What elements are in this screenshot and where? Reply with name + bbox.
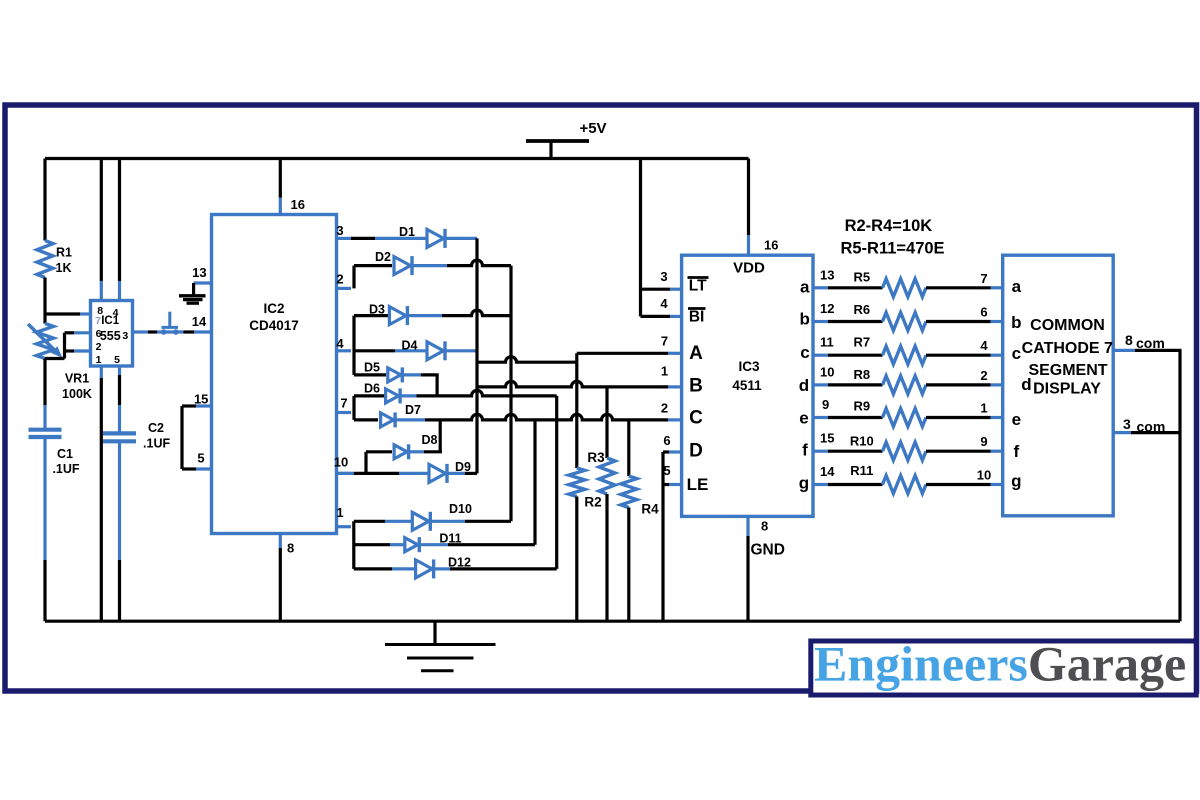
svg-text:2: 2	[661, 401, 668, 416]
ground at IC2 pin13	[192, 283, 195, 295]
resistor R11 row	[813, 483, 828, 486]
svg-text:B: B	[689, 376, 703, 397]
svg-text:D9: D9	[455, 460, 471, 474]
svg-text:C2: C2	[148, 421, 164, 435]
svg-text:R7: R7	[853, 335, 870, 350]
wire rail drop to LT/BI bracket	[639, 159, 642, 317]
potentiometer VR1	[37, 324, 54, 359]
wire left main column top	[43, 159, 46, 241]
wire IC1 pin3 output row	[133, 330, 149, 333]
svg-text:4: 4	[980, 338, 988, 353]
svg-text:R4: R4	[641, 502, 659, 517]
svg-text:LT: LT	[689, 278, 707, 295]
svg-text:1: 1	[661, 364, 668, 379]
diode D6 row	[354, 394, 384, 397]
wire elbow pin7 rows D6-D7	[352, 396, 355, 420]
wire D8 rise to C line	[439, 420, 442, 452]
wire IC2 pin2 stub	[337, 287, 352, 290]
svg-text:com: com	[1136, 335, 1165, 351]
resistor R10 row	[813, 450, 828, 453]
svg-text:2: 2	[96, 341, 102, 353]
wire common cathode down to rail	[1178, 350, 1181, 621]
svg-text:D: D	[689, 441, 703, 462]
diode D3 row	[354, 314, 388, 317]
svg-text:SEGMENT: SEGMENT	[1028, 362, 1107, 379]
resistor R7 row	[813, 354, 828, 357]
wire IC1 pin5 down	[118, 366, 121, 375]
svg-text:3: 3	[122, 330, 128, 342]
capacitor C1 .1UF	[29, 428, 62, 432]
svg-text:BI: BI	[689, 309, 705, 326]
svg-text:11: 11	[820, 335, 834, 350]
svg-text:D11: D11	[439, 532, 461, 546]
diode D10 row	[354, 520, 385, 523]
wire node to VR1 top	[43, 314, 46, 324]
svg-text:g: g	[799, 474, 809, 493]
svg-text:10: 10	[334, 455, 348, 470]
IC2 CD4017 box	[212, 215, 337, 534]
svg-text:R5-R11=470E: R5-R11=470E	[840, 240, 944, 258]
svg-text:CATHODE 7: CATHODE 7	[1022, 340, 1113, 357]
svg-text:+5V: +5V	[579, 120, 606, 137]
svg-text:a: a	[800, 278, 810, 297]
wire elbow pin10 to D8 row	[364, 452, 367, 474]
svg-text:5: 5	[114, 354, 120, 366]
svg-text:7: 7	[661, 334, 668, 349]
svg-text:R1: R1	[56, 246, 72, 260]
wire IC2 pin1 stub	[337, 525, 352, 528]
wire elbow pin2 to D2 row	[352, 266, 355, 289]
wire bottom ground rail	[45, 620, 1180, 623]
7-segment display box	[1003, 255, 1113, 516]
wire IC2 pin10 stub	[337, 472, 352, 475]
wire IC3 pinD stub	[663, 450, 669, 453]
svg-text:R11: R11	[850, 463, 873, 478]
resistor R5 row	[813, 286, 828, 289]
svg-text:DISPLAY: DISPLAY	[1033, 381, 1101, 398]
svg-text:1: 1	[96, 354, 102, 366]
wire D6 column down to D12	[555, 396, 558, 569]
wire IC1 pin8 to rail	[100, 159, 103, 282]
wire IC2 pin16 blue stub	[279, 198, 282, 215]
wire pin7 row to IC1	[45, 312, 80, 315]
wire pin2 row	[65, 349, 75, 352]
resistor R4	[627, 420, 630, 476]
svg-text:IC1: IC1	[101, 315, 120, 327]
svg-text:c: c	[1012, 344, 1021, 363]
svg-text:VDD: VDD	[733, 260, 765, 277]
diode D11 row	[354, 543, 390, 546]
wire A line to IC3 pin7	[577, 352, 668, 355]
node B line to IC3 pin1	[477, 381, 668, 386]
svg-text:GND: GND	[751, 542, 785, 559]
svg-text:8: 8	[1125, 332, 1133, 348]
wire C1 bottom to ground rail	[43, 437, 46, 560]
svg-text:3: 3	[336, 223, 343, 238]
svg-text:100K: 100K	[62, 387, 92, 401]
svg-text:e: e	[799, 409, 808, 428]
wire 8com from display	[1113, 349, 1135, 352]
svg-text:555: 555	[100, 329, 121, 343]
wire D5 drop to D6 row	[436, 375, 439, 397]
svg-text:6: 6	[980, 305, 987, 320]
diode D8 row	[366, 450, 392, 453]
wire R1 bottom to pin7 node	[43, 278, 46, 315]
svg-text:R10: R10	[850, 434, 874, 449]
svg-text:R3: R3	[587, 450, 605, 465]
diode D7 row (C line)	[354, 418, 378, 421]
svg-text:R8: R8	[853, 367, 870, 382]
wire bracket pin15-pin5	[180, 406, 183, 469]
wire IC3 pin16 blue stub	[747, 235, 750, 255]
wire matrix column 2	[509, 266, 512, 522]
svg-text:16: 16	[291, 197, 305, 212]
svg-text:.1UF: .1UF	[143, 437, 170, 451]
svg-text:D2: D2	[375, 250, 391, 264]
svg-text:9: 9	[822, 397, 829, 412]
svg-text:D7: D7	[405, 403, 421, 417]
svg-text:1: 1	[980, 401, 987, 416]
svg-text:1K: 1K	[56, 261, 72, 275]
svg-text:5: 5	[663, 463, 670, 478]
svg-text:4511: 4511	[732, 378, 762, 393]
wire IC1 pin4 to rail	[118, 159, 121, 282]
wire matrix column 3	[533, 420, 536, 545]
svg-text:7: 7	[95, 315, 101, 327]
diode D12 row	[354, 567, 392, 570]
svg-text:5: 5	[197, 451, 204, 466]
svg-text:15: 15	[194, 392, 208, 407]
svg-text:3: 3	[1123, 416, 1131, 432]
pushbutton switch	[161, 329, 167, 335]
svg-text:15: 15	[820, 431, 834, 446]
resistor R1	[37, 241, 53, 278]
svg-text:10: 10	[820, 364, 834, 379]
wire IC3 pin8 GND to rail	[746, 516, 749, 536]
svg-text:.1UF: .1UF	[52, 462, 79, 476]
wire IC2 pin5 stub	[196, 467, 212, 470]
svg-text:D5: D5	[364, 361, 380, 375]
wire 3com from display	[1113, 431, 1131, 434]
svg-text:e: e	[1012, 410, 1021, 429]
svg-text:7: 7	[980, 271, 987, 286]
svg-text:13: 13	[192, 265, 206, 280]
node A line	[477, 357, 577, 362]
svg-text:c: c	[800, 343, 809, 362]
wire rail drop to IC2 pin16	[279, 159, 282, 198]
svg-text:14: 14	[820, 464, 835, 479]
svg-text:CD4017: CD4017	[249, 318, 299, 333]
svg-text:6: 6	[663, 433, 670, 448]
svg-text:f: f	[802, 441, 808, 460]
wire elbow pin4 rows D3-D5	[352, 316, 355, 375]
wire pin6 row	[65, 331, 75, 334]
capacitor C2 .1UF	[103, 431, 136, 435]
wire elbow pin1 rows D10-D12	[352, 521, 355, 569]
svg-text:12: 12	[820, 301, 834, 316]
wire IC3 pinLE stub	[663, 483, 669, 486]
svg-text:8: 8	[761, 519, 768, 534]
svg-text:R2: R2	[584, 495, 601, 510]
wire IC2 pin4 stub	[337, 349, 352, 352]
wire IC2 pin13 stub	[194, 281, 212, 284]
svg-text:VR1: VR1	[65, 372, 89, 386]
wire IC2 pin3 stub	[337, 237, 352, 240]
op-amp IC3 4511 box	[682, 255, 813, 516]
svg-text:C: C	[689, 408, 703, 429]
wire IC1 pin1 down to ground rail	[100, 366, 103, 378]
svg-text:d: d	[799, 376, 809, 395]
diode D9 row	[337, 472, 354, 475]
svg-text:R9: R9	[853, 398, 870, 413]
wire IC2 pin8 to ground rail	[279, 534, 282, 549]
op-amp IC1 555 timer box	[91, 301, 133, 367]
wire D-LE tie down to ground rail	[661, 452, 664, 621]
svg-text:D4: D4	[402, 339, 418, 353]
wire C2 bottom to ground rail	[118, 441, 121, 560]
diode D1 row	[351, 237, 375, 240]
svg-text:A: A	[689, 343, 703, 364]
wire rail corner down to IC3 pin16	[747, 159, 750, 236]
svg-text:7: 7	[340, 396, 347, 411]
svg-text:b: b	[1011, 313, 1021, 332]
svg-text:C1: C1	[57, 447, 73, 461]
svg-text:2: 2	[336, 272, 343, 287]
svg-text:3: 3	[660, 269, 667, 284]
wire matrix column 1	[475, 238, 478, 473]
svg-text:com: com	[1137, 419, 1166, 435]
diode D4 row	[354, 349, 395, 352]
resistor R3	[605, 387, 608, 458]
resistor R8 row	[813, 383, 828, 386]
svg-text:D8: D8	[422, 433, 438, 447]
svg-text:10: 10	[977, 468, 991, 483]
svg-text:LE: LE	[687, 475, 709, 494]
resistor R2	[575, 362, 578, 468]
svg-text:D3: D3	[369, 303, 385, 317]
svg-text:R6: R6	[853, 302, 870, 317]
wire LT row pin3	[641, 288, 671, 291]
logo EngineersGarage	[811, 641, 1196, 695]
svg-text:D12: D12	[448, 556, 471, 570]
ground main symbol	[433, 621, 436, 644]
svg-text:1: 1	[336, 505, 343, 520]
+5V supply bar	[526, 139, 589, 143]
svg-text:8: 8	[287, 541, 294, 556]
wire top +5V rail	[45, 157, 749, 160]
svg-text:2: 2	[980, 368, 987, 383]
svg-text:D1: D1	[399, 225, 415, 239]
svg-text:D6: D6	[364, 382, 380, 396]
svg-text:g: g	[1011, 472, 1021, 491]
wire VR1 bottom to wiper bracket	[45, 357, 65, 360]
svg-text:4: 4	[336, 336, 344, 351]
svg-text:COMMON: COMMON	[1030, 317, 1105, 334]
svg-text:16: 16	[764, 238, 778, 253]
svg-text:a: a	[1012, 277, 1022, 296]
svg-text:D10: D10	[449, 502, 472, 516]
svg-text:R5: R5	[853, 269, 870, 284]
svg-text:IC2: IC2	[263, 301, 284, 316]
wire VR1 bottom to C1	[43, 359, 46, 406]
svg-text:IC3: IC3	[738, 359, 760, 374]
wire A jog up	[575, 353, 578, 362]
svg-text:14: 14	[192, 314, 207, 329]
wire bracket pins 6-2	[63, 333, 66, 359]
svg-text:4: 4	[660, 296, 668, 311]
wire IC2 pin15 stub	[196, 404, 212, 407]
resistor R9 row	[813, 416, 828, 419]
diode D5 row	[354, 373, 386, 376]
diode D2 row	[354, 264, 392, 267]
wire IC2 pin7 stub	[337, 411, 352, 414]
resistor R6 row	[813, 320, 828, 323]
wire BI row pin4	[641, 315, 671, 318]
svg-text:b: b	[800, 310, 810, 329]
svg-text:R2-R4=10K: R2-R4=10K	[845, 217, 933, 235]
svg-text:9: 9	[980, 434, 987, 449]
svg-text:f: f	[1013, 442, 1019, 461]
svg-text:13: 13	[820, 267, 834, 282]
svg-text:EngineersGarage: EngineersGarage	[814, 636, 1186, 692]
